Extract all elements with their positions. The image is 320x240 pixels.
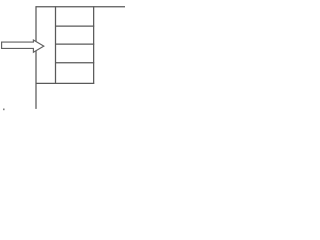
wire left vertical line: [35, 6, 37, 109]
wire top horizontal line: [36, 6, 126, 8]
block arrow pointing right: [2, 40, 44, 52]
caption mark: [3, 109, 4, 111]
wire bottom horizontal line: [36, 82, 95, 84]
wire row divider 2: [55, 43, 94, 45]
wire row divider 3: [55, 62, 94, 64]
wire row divider 1: [55, 25, 94, 27]
node table right edge: [93, 6, 95, 84]
node table left edge: [55, 6, 57, 84]
